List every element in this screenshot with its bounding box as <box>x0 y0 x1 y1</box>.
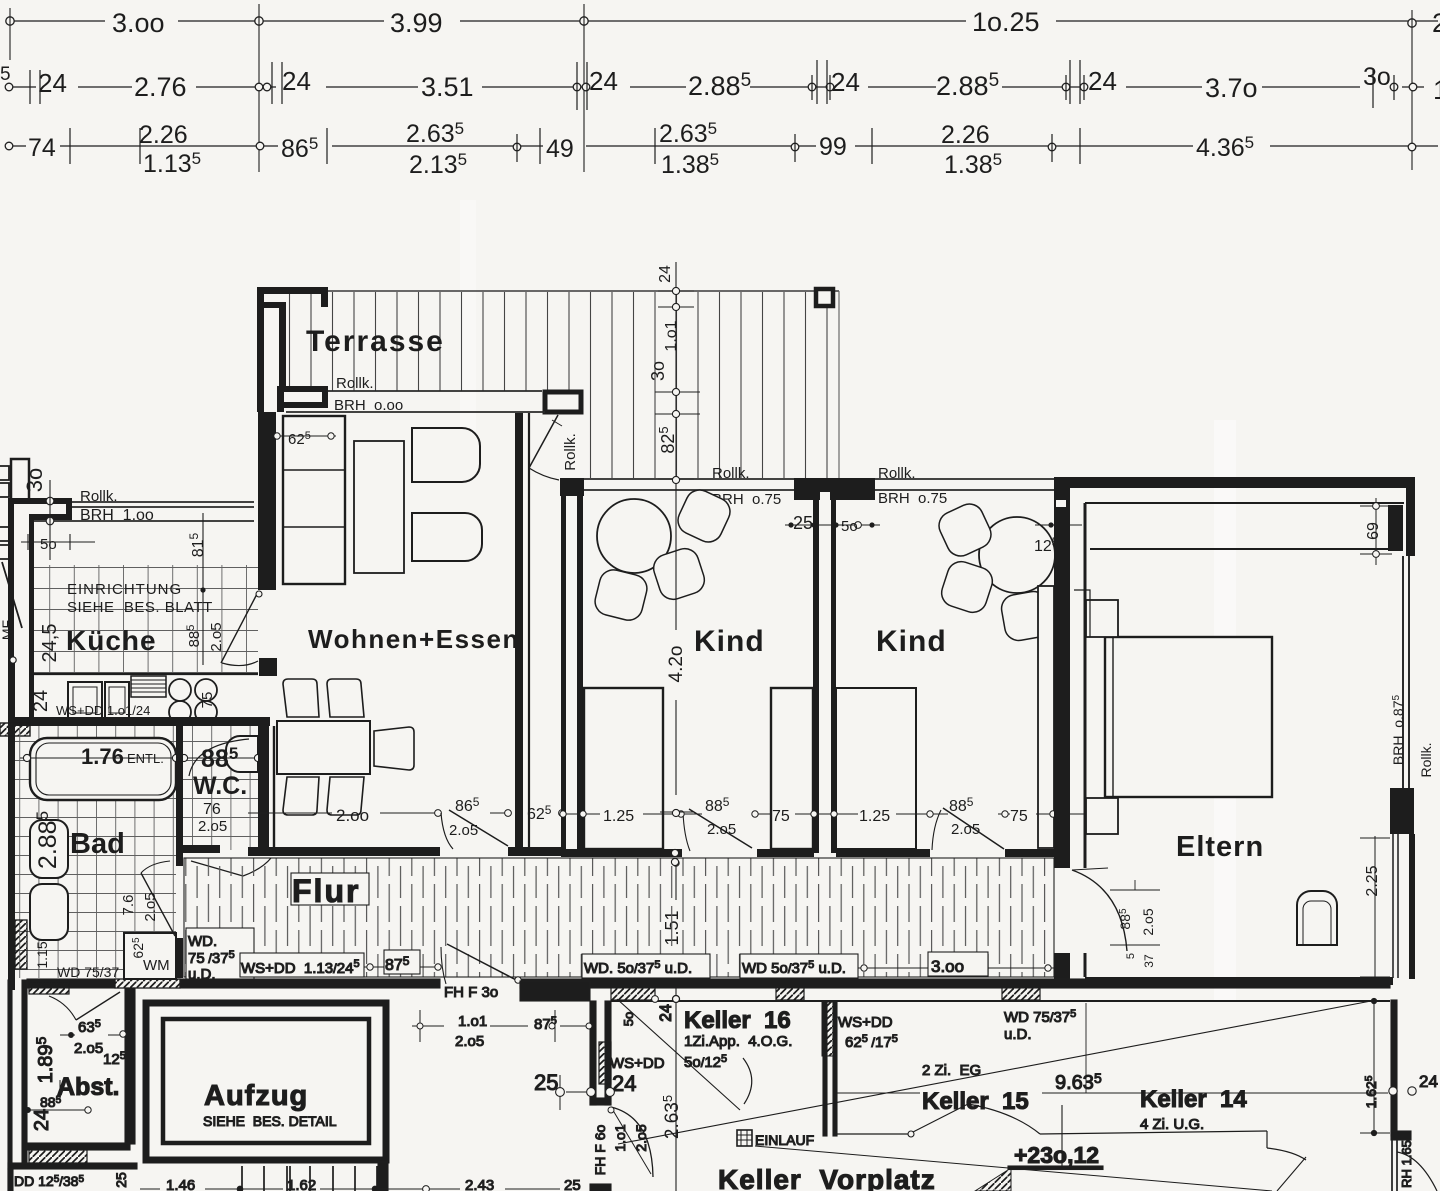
abst door leaf + arc <box>76 992 120 1020</box>
vertical guide lines <box>10 4 1412 172</box>
washing machine <box>124 933 176 979</box>
svg-text:FH F 3o: FH F 3o <box>444 984 498 1001</box>
dim 25 and 5o <box>785 524 880 526</box>
kind bottom walls <box>561 849 682 857</box>
svg-text:3o: 3o <box>1363 63 1391 91</box>
kind2 closet right <box>1038 586 1054 848</box>
neighbour balcony bits left edge <box>0 466 22 628</box>
svg-text:Rollk.: Rollk. <box>1418 742 1434 777</box>
keller16 door arc <box>743 1058 752 1104</box>
terrace left outer wall <box>257 287 264 412</box>
svg-text:1.o1: 1.o1 <box>458 1013 487 1030</box>
terrace top thin edge <box>328 290 839 292</box>
armchair 1 <box>412 428 480 482</box>
svg-text:Rollk.: Rollk. <box>80 488 118 505</box>
svg-text:BRH o.oo: BRH o.oo <box>334 397 403 414</box>
svg-text:BRH o.75: BRH o.75 <box>878 490 947 507</box>
svg-text:1.15: 1.15 <box>34 941 50 968</box>
bottom right door arc <box>1397 1152 1437 1191</box>
kitchen window band lines <box>34 502 254 521</box>
svg-text:2.43: 2.43 <box>465 1177 494 1191</box>
wc door arc <box>189 739 249 776</box>
hatched wall piece left of kitchen bottom <box>0 723 30 736</box>
second fixture <box>30 884 68 940</box>
svg-text:WD.: WD. <box>188 933 217 950</box>
svg-text:+23o,12: +23o,12 <box>1014 1142 1099 1168</box>
svg-text:24: 24 <box>282 66 311 96</box>
svg-text:Bad: Bad <box>70 828 125 860</box>
hatch piece on keller wall <box>822 1002 833 1056</box>
kind2 chair b <box>938 558 996 616</box>
terrace wall connector <box>264 302 286 308</box>
wall kueche/wohnen upper <box>258 412 276 590</box>
svg-text:3.oo: 3.oo <box>931 957 964 976</box>
eltern door arc <box>1072 870 1127 951</box>
svg-text:Wohnen+Essen: Wohnen+Essen <box>308 624 520 654</box>
label WD. 75/37.5 u.D. <box>186 928 254 980</box>
flur floor hatch <box>184 858 1054 977</box>
kind2 door leaf + arc <box>943 808 1004 849</box>
svg-text:2: 2 <box>1432 8 1440 38</box>
wc bottom wall <box>183 845 220 853</box>
keller top thin line <box>611 1000 1390 1002</box>
svg-text:1.62: 1.62 <box>287 1177 316 1191</box>
svg-text:625 /175: 625 /175 <box>845 1033 898 1051</box>
washbasin <box>30 820 68 878</box>
svg-text:1.46: 1.46 <box>166 1177 195 1191</box>
svg-text:1Zi.App. 4.O.G.: 1Zi.App. 4.O.G. <box>684 1033 792 1050</box>
dim 12.5 kind2 top right <box>1035 510 1082 545</box>
armchair 2 <box>412 513 482 561</box>
dimension row 1 line <box>10 20 1438 22</box>
right window band bottom <box>1392 1140 1397 1191</box>
kitchen door arc <box>222 661 258 666</box>
svg-text:Flur: Flur <box>292 873 360 909</box>
svg-text:99: 99 <box>819 133 847 161</box>
kitchen top wall step <box>66 498 72 519</box>
coffee table <box>354 441 404 573</box>
kitchen top wall bar inner <box>29 514 72 520</box>
abst bottom wall <box>27 1143 130 1150</box>
kitchen left inner wall <box>29 518 34 718</box>
svg-text:1o.25: 1o.25 <box>972 7 1040 37</box>
svg-text:24: 24 <box>1088 66 1117 96</box>
svg-text:5o/125: 5o/125 <box>684 1053 727 1071</box>
nightstand top <box>1086 600 1118 637</box>
svg-text:Kind: Kind <box>876 625 947 658</box>
svg-text:Terrasse: Terrasse <box>306 325 445 358</box>
hatched piece below abst <box>29 1150 87 1163</box>
kind1 chair c <box>592 567 650 623</box>
wall kind2/eltern solid lower <box>1054 953 1070 988</box>
svg-text:5: 5 <box>1125 953 1137 959</box>
svg-text:2.o5: 2.o5 <box>951 821 980 838</box>
row1 tick circles <box>6 17 1416 27</box>
svg-text:WD 75/37: WD 75/37 <box>57 964 119 980</box>
kind1 chair a <box>673 485 734 546</box>
svg-text:2.o5: 2.o5 <box>707 821 736 838</box>
svg-text:3o: 3o <box>22 468 47 492</box>
svg-text:Keller 14: Keller 14 <box>1140 1086 1247 1113</box>
wohnen terrace window band lines <box>286 391 545 412</box>
wall bad/wc <box>176 726 183 852</box>
dim extension line x=1086 <box>1085 1003 1087 1093</box>
svg-text:Keller 15: Keller 15 <box>922 1088 1029 1115</box>
flur bottom wall left <box>27 979 115 988</box>
pipe diagonal from einlauf <box>755 1146 1272 1191</box>
svg-text:Kind: Kind <box>694 625 765 658</box>
abst dim lines <box>28 1035 122 1110</box>
kind2 chair a <box>934 499 995 560</box>
second bottom line <box>8 1163 137 1169</box>
svg-text:Küche: Küche <box>66 625 157 656</box>
svg-text:24: 24 <box>31 1109 53 1131</box>
svg-text:2.26: 2.26 <box>941 121 990 149</box>
right wall below <box>1409 834 1415 979</box>
hinge circles kind1 door <box>672 850 679 866</box>
eltern top wall <box>1054 477 1415 488</box>
label WD. 5o/37.5 u.D. no1 <box>582 954 710 978</box>
sink unit <box>68 682 102 718</box>
row 2 line <box>9 86 1424 88</box>
bed <box>1105 637 1272 797</box>
kind1 round table <box>597 499 671 573</box>
Aufzug inner box <box>163 1019 369 1143</box>
cooktop burners <box>169 679 217 723</box>
svg-text:2.o5: 2.o5 <box>1140 908 1156 935</box>
kind1 chair b <box>650 545 708 603</box>
wc toilet <box>226 736 258 772</box>
dim circles kitchen top <box>46 497 54 525</box>
FHF6o door stub bottom <box>590 1184 611 1191</box>
right wall block below window <box>1390 788 1414 834</box>
svg-text:1.o1: 1.o1 <box>663 320 680 351</box>
steep diagonal keller16 <box>617 999 740 1110</box>
svg-text:24: 24 <box>657 265 674 283</box>
terrace door leaf + arc <box>529 415 558 468</box>
chain tick bars <box>655 291 700 981</box>
svg-text:WD 75/375: WD 75/375 <box>1004 1008 1076 1026</box>
svg-text:3o: 3o <box>648 361 668 381</box>
label WS+DD 1.13/24.5 <box>240 953 364 977</box>
svg-text:2.o5: 2.o5 <box>198 818 227 835</box>
drainer hatched <box>131 676 166 697</box>
wc exit door into flur <box>191 858 271 876</box>
rotated chain texts <box>646 265 687 1139</box>
svg-text:2.26: 2.26 <box>139 121 188 149</box>
wohnen bottom wall right <box>508 847 562 856</box>
svg-text:24: 24 <box>38 68 67 98</box>
small dim ticks near door <box>1110 880 1160 945</box>
svg-text:5: 5 <box>0 64 11 85</box>
bad door arc <box>141 861 170 873</box>
svg-text:MF: MF <box>0 620 15 640</box>
kind2 wardrobe left <box>836 688 916 849</box>
wall corner right of FHF3o door <box>520 981 590 1001</box>
kind1 window band <box>584 479 794 490</box>
svg-text:Keller 16: Keller 16 <box>684 1007 791 1034</box>
outer west wall upper <box>8 498 14 662</box>
svg-text:24: 24 <box>612 1071 636 1096</box>
kind1 left wall double lines <box>561 496 566 853</box>
white notch in corner <box>1056 500 1066 507</box>
circles at top of keller16 wall <box>652 996 680 1003</box>
wohnen door arc <box>441 813 453 849</box>
kind2 chair c <box>999 589 1052 642</box>
svg-text:75: 75 <box>199 692 216 709</box>
svg-text:2.oo: 2.oo <box>336 806 369 825</box>
wohnen door leaf <box>449 810 508 846</box>
svg-text:SIEHE BES. DETAIL: SIEHE BES. DETAIL <box>203 1113 337 1129</box>
svg-text:1: 1 <box>1433 75 1440 105</box>
bathtub <box>30 738 176 800</box>
dim line rooms y=814 <box>563 813 1085 815</box>
svg-text:1.25: 1.25 <box>859 808 890 825</box>
wall kind2/eltern solid upper <box>1054 478 1070 868</box>
wall wc/wohnen <box>258 726 269 852</box>
svg-text:24: 24 <box>831 67 860 97</box>
svg-text:5o: 5o <box>841 518 858 535</box>
terrace pillar square top right <box>816 289 833 306</box>
kind2 round table <box>979 517 1055 593</box>
dining table <box>277 721 370 774</box>
svg-text:Rollk.: Rollk. <box>562 433 579 471</box>
keller16 west wall <box>590 1001 596 1105</box>
dining chairs top <box>283 679 319 717</box>
svg-text:5o: 5o <box>40 536 57 553</box>
kind1 wardrobe left <box>584 688 663 849</box>
sofa dim 62.5 <box>270 435 336 437</box>
keller14 door <box>1266 1131 1268 1148</box>
scan crease light band <box>1214 420 1236 1000</box>
svg-text:4 Zi. U.G.: 4 Zi. U.G. <box>1140 1116 1204 1133</box>
svg-text:75: 75 <box>772 808 790 825</box>
kind1 wardrobe right <box>771 688 813 849</box>
dim line flur right <box>858 967 1054 969</box>
kind2 window band <box>875 479 1054 490</box>
svg-text:3.7o: 3.7o <box>1205 73 1258 103</box>
flur bottom wall right <box>520 979 1390 988</box>
row3 cross ticks <box>70 128 1080 164</box>
svg-text:EINRICHTUNG: EINRICHTUNG <box>67 581 182 598</box>
svg-text:2.o5: 2.o5 <box>208 622 225 651</box>
door FH F 3o leaf + arc <box>447 944 520 982</box>
row2 wall tick strokes <box>30 60 1394 110</box>
kind1 left wall top block <box>560 478 584 496</box>
keller15/16 wall <box>823 1001 827 1136</box>
door frame hatch piece <box>599 1042 611 1084</box>
row3 tick circles <box>5 142 1416 151</box>
svg-text:WD 5o/375 u.D.: WD 5o/375 u.D. <box>742 959 846 977</box>
wall stems kind1/kind2 <box>813 496 819 853</box>
level mark +23o,12 <box>1061 1105 1063 1167</box>
svg-text:25: 25 <box>534 1070 558 1095</box>
dim 69 rotated <box>1360 498 1392 565</box>
svg-text:24,5: 24,5 <box>39 624 61 663</box>
left outer wall double below flur <box>8 980 12 1191</box>
dim 2.25 rotated <box>1374 836 1376 977</box>
long diagonal keller <box>618 1001 1371 1144</box>
row2 tick circles <box>5 83 1417 91</box>
svg-text:EINLAUF: EINLAUF <box>755 1132 814 1148</box>
kitchen bottom wall <box>14 717 270 726</box>
row 3 line <box>9 145 1438 147</box>
FHF6o door arc <box>611 1107 653 1177</box>
vertical dim chain line x=676 <box>675 262 677 1191</box>
bad floor tile grid <box>15 726 176 978</box>
svg-text:76: 76 <box>203 801 221 818</box>
svg-text:49: 49 <box>546 135 574 163</box>
svg-text:1.o1: 1.o1 <box>612 1124 628 1151</box>
sofa strip <box>283 416 345 584</box>
svg-text:WM: WM <box>143 957 170 974</box>
wall wohnen right (rollk shaft) <box>515 413 523 847</box>
svg-text:Eltern: Eltern <box>1176 831 1264 863</box>
svg-text:Rollk.: Rollk. <box>712 465 750 482</box>
eltern bottom wall <box>1085 977 1393 985</box>
eltern closet band <box>1090 548 1388 550</box>
terrace wall right stub <box>321 294 328 307</box>
label WD 5o/37.5 u.D. no2 <box>740 954 858 978</box>
eltern side wall line <box>1084 503 1087 977</box>
kitchen door leaf <box>221 592 258 663</box>
kitchen counter top line <box>34 673 258 675</box>
terrace outer wall top bar <box>257 287 328 294</box>
chain circles <box>671 287 679 1002</box>
dim circles right <box>1389 1087 1416 1095</box>
closet right end block <box>1388 505 1403 551</box>
keller right wall <box>1391 1000 1397 1136</box>
bad door leaf <box>141 873 175 936</box>
staircase below aufzug <box>242 1166 377 1191</box>
svg-text:WS+DD: WS+DD <box>610 1055 665 1072</box>
svg-text:2.o5: 2.o5 <box>633 1124 649 1151</box>
svg-text:69: 69 <box>1365 522 1382 540</box>
svg-text:4.2o: 4.2o <box>666 646 687 683</box>
svg-text:WS+DD 1.o1/24: WS+DD 1.o1/24 <box>56 703 150 718</box>
svg-text:24: 24 <box>1419 1072 1438 1091</box>
outer west wall lower <box>8 660 15 990</box>
svg-text:2.o5: 2.o5 <box>74 1040 103 1057</box>
nightstand bottom <box>1086 798 1118 834</box>
terrace inner wall <box>279 308 286 391</box>
pier between terrace door and kitchen <box>277 389 328 405</box>
long dim line keller <box>836 1092 1388 1094</box>
window pier block right of wohnen terrace door <box>545 392 581 412</box>
abst right wall <box>125 988 135 1144</box>
label Flur <box>291 873 369 905</box>
svg-text:7.6: 7.6 <box>120 895 137 916</box>
EINLAUF symbol <box>737 1130 752 1146</box>
east window band <box>1403 556 1409 788</box>
wall stub below kitchen door <box>259 658 277 676</box>
svg-text:WS+DD: WS+DD <box>838 1014 893 1031</box>
svg-text:1.76: 1.76 <box>81 744 124 769</box>
svg-text:37: 37 <box>1142 954 1156 968</box>
washbasin eltern <box>1297 891 1337 945</box>
svg-text:BRH 1.oo: BRH 1.oo <box>80 507 154 524</box>
Aufzug outer box <box>146 1003 386 1160</box>
eltern top wall inner line <box>1085 502 1404 504</box>
terrace floor hatch upper <box>288 292 838 391</box>
svg-text:WS+DD 1.13/245: WS+DD 1.13/245 <box>241 958 360 977</box>
kitchen top wall bar outer <box>11 498 71 504</box>
bottom dim line <box>140 1188 560 1190</box>
small parapet above kitchen <box>11 459 29 500</box>
svg-text:RH 1.65: RH 1.65 <box>1399 1140 1414 1188</box>
svg-text:Rollk.: Rollk. <box>336 375 374 392</box>
label 87.5 <box>384 950 420 974</box>
svg-text:75: 75 <box>1010 808 1028 825</box>
wohnen bottom wall left <box>248 847 440 856</box>
svg-text:SIEHE BES. BLATT: SIEHE BES. BLATT <box>67 599 213 616</box>
svg-text:3.99: 3.99 <box>390 8 443 38</box>
svg-text:25: 25 <box>564 1177 581 1191</box>
svg-text:Abst.: Abst. <box>57 1073 120 1101</box>
wall segment right of bad lower <box>176 852 183 866</box>
svg-text:3.oo: 3.oo <box>112 8 165 38</box>
bottom-left corner block <box>8 1169 13 1191</box>
svg-text:BRH o.875: BRH o.875 <box>1390 694 1406 765</box>
tub dim line <box>20 757 262 759</box>
svg-text:DD 125/385: DD 125/385 <box>14 1173 84 1189</box>
svg-text:WD. 5o/375 u.D.: WD. 5o/375 u.D. <box>584 959 692 977</box>
right wall top block <box>1406 477 1415 556</box>
small circle left wall <box>10 657 16 663</box>
keller15 door line + leaf + arc <box>837 1133 909 1135</box>
svg-text:75 /375: 75 /375 <box>188 949 235 967</box>
kind1 door leaf + arc <box>689 809 752 848</box>
svg-text:1.25: 1.25 <box>603 808 634 825</box>
svg-text:24: 24 <box>589 66 618 96</box>
dining chairs bottom <box>283 777 319 815</box>
svg-text:25: 25 <box>793 513 813 533</box>
svg-text:24: 24 <box>658 1004 675 1022</box>
wc floor tile grid <box>183 726 258 850</box>
svg-text:2.o5: 2.o5 <box>455 1033 484 1050</box>
T pier wall between kind rooms <box>794 478 875 500</box>
dim line 2.00 <box>248 812 508 814</box>
svg-text:Rollk.: Rollk. <box>878 465 916 482</box>
svg-text:74: 74 <box>28 134 56 162</box>
dim line flur left <box>364 966 438 968</box>
svg-text:24: 24 <box>30 690 52 712</box>
dim 81.5 rotated with line <box>202 513 204 665</box>
dim line 5o <box>21 480 95 560</box>
terrace floor hatch lower (right deep part) <box>587 391 838 478</box>
label 3.oo <box>928 952 988 976</box>
svg-text:Keller Vorplatz: Keller Vorplatz <box>718 1164 936 1191</box>
svg-text:FH F 6o: FH F 6o <box>592 1125 608 1176</box>
svg-text:3.51: 3.51 <box>421 72 474 102</box>
svg-text:u.D.: u.D. <box>1004 1026 1032 1043</box>
svg-text:2.76: 2.76 <box>134 72 187 102</box>
terrace right thin edge <box>838 291 840 478</box>
row texts <box>0 7 1440 105</box>
svg-text:Aufzug: Aufzug <box>204 1080 308 1112</box>
kitchen floor tile grid <box>34 565 258 675</box>
svg-text:ENTL.: ENTL. <box>127 751 164 766</box>
dining chair right <box>374 727 414 770</box>
hatched lintels on south wall <box>611 987 655 1000</box>
svg-text:W.C.: W.C. <box>193 772 247 800</box>
hatched lintel left of abst door <box>29 982 69 994</box>
svg-text:2.25: 2.25 <box>1364 865 1381 896</box>
duct hatched piece in bad <box>15 920 27 969</box>
svg-text:2.o5: 2.o5 <box>142 892 159 921</box>
svg-text:25: 25 <box>113 1172 129 1188</box>
